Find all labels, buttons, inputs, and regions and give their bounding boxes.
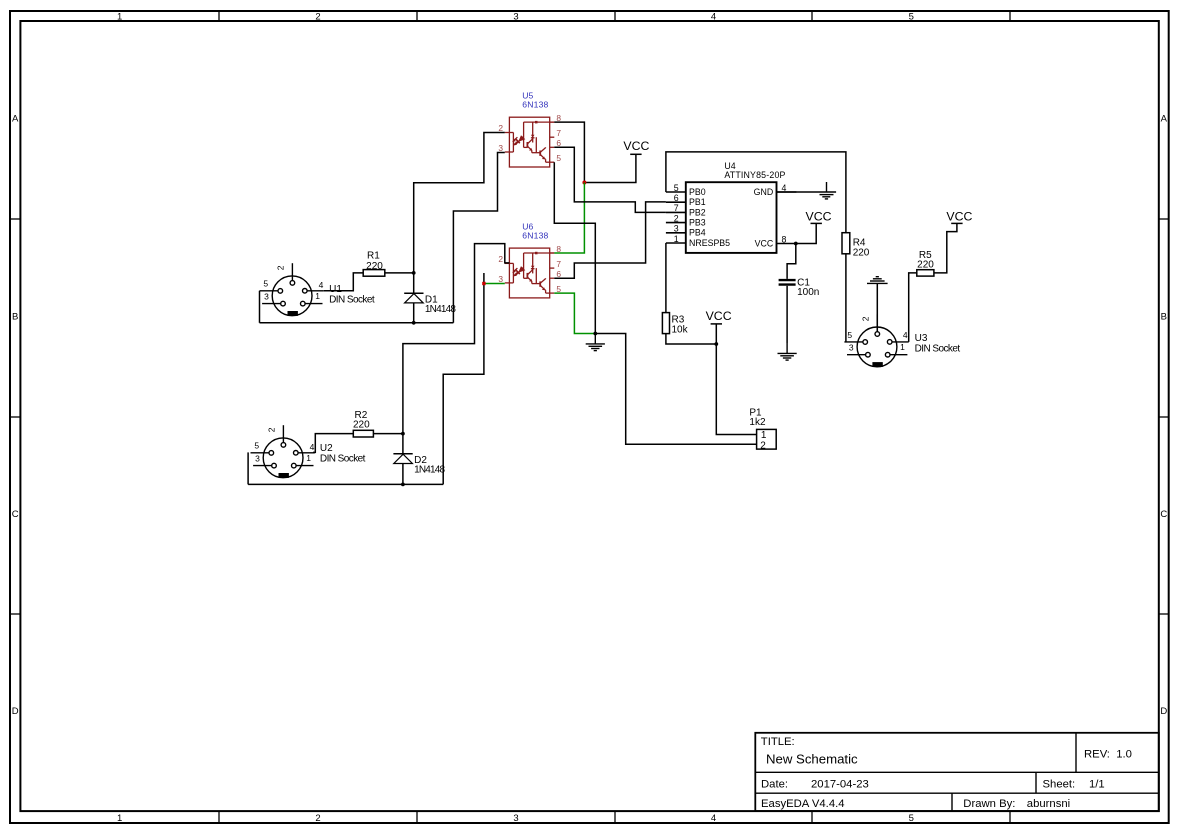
svg-text:6: 6 <box>674 193 679 203</box>
DIN socket U3 <box>844 314 960 367</box>
border row labels right <box>1160 113 1167 717</box>
diode D2 1N4148 <box>393 434 445 485</box>
border column ticks bottom <box>219 811 1010 823</box>
wire U5 pin8 to VCC junction <box>554 122 584 182</box>
wire R2 to D2 top junction <box>373 433 403 435</box>
wire U5 pin5 to ground <box>554 162 595 333</box>
svg-text:7: 7 <box>674 203 679 213</box>
wire VCC junction to P1 pin1 <box>716 344 756 435</box>
power flag VCC at U4 <box>806 209 832 223</box>
svg-text:5: 5 <box>263 279 268 289</box>
svg-text:7: 7 <box>556 128 561 138</box>
svg-text:VCC: VCC <box>623 139 649 153</box>
junction square U6 pin3 <box>482 282 485 285</box>
svg-text:ATTINY85-20P: ATTINY85-20P <box>724 170 785 180</box>
wire R3 bottom to VCC junction <box>666 334 716 344</box>
svg-text:3: 3 <box>513 813 518 824</box>
svg-text:DIN Socket: DIN Socket <box>915 344 961 355</box>
svg-text:2: 2 <box>674 213 679 223</box>
svg-text:1/1: 1/1 <box>1089 779 1105 791</box>
svg-text:2017-04-23: 2017-04-23 <box>811 779 869 791</box>
diode D1 1N4148 <box>404 273 456 323</box>
svg-text:3: 3 <box>255 453 260 463</box>
power flag VCC at R5 <box>946 209 972 223</box>
wire U2 pin4 to R2 <box>313 434 353 453</box>
border column labels top <box>117 12 914 23</box>
svg-text:4: 4 <box>711 813 716 824</box>
svg-text:6N138: 6N138 <box>522 100 548 110</box>
DIN socket U2 <box>251 425 366 478</box>
svg-text:PB2: PB2 <box>689 207 706 217</box>
wire U3 pin4 to R5 <box>909 273 917 342</box>
wire U4 GND pin to ground <box>777 191 837 193</box>
svg-text:PB1: PB1 <box>689 197 706 207</box>
wire R1 to D1 top junction <box>385 272 414 274</box>
svg-text:5: 5 <box>556 153 561 163</box>
border column labels bottom <box>117 813 914 824</box>
svg-text:Date:: Date: <box>761 779 788 791</box>
wire bottom rail to U6 pin3 node <box>443 273 484 484</box>
svg-text:New Schematic: New Schematic <box>766 751 858 766</box>
opto-coupler U5 6N138 <box>498 91 561 168</box>
svg-text:3: 3 <box>513 12 518 23</box>
svg-text:EasyEDA V4.4.4: EasyEDA V4.4.4 <box>761 798 845 810</box>
wire U3 pin2 to ground flag <box>876 283 878 331</box>
capacitor C1 100n <box>779 277 820 298</box>
opto-coupler U6 6N138 <box>498 222 561 298</box>
svg-text:A: A <box>12 113 19 124</box>
wire U2 bottom rail <box>248 483 443 485</box>
svg-text:B: B <box>12 311 18 322</box>
wire green U6 pin3 <box>484 283 505 285</box>
svg-text:Drawn By:: Drawn By: <box>963 798 1015 810</box>
wire U1 bottom rail <box>260 322 454 324</box>
wire U4 VCC pin to junction <box>796 223 816 243</box>
resistor R4 220 <box>842 233 870 259</box>
wire VCC junction to VCC symbol <box>584 154 636 182</box>
resistor R3 10k <box>662 313 688 336</box>
svg-text:4: 4 <box>319 280 324 290</box>
ground symbol center <box>586 334 605 351</box>
svg-text:220: 220 <box>353 419 370 430</box>
wire R4 bottom to U3 pin5 <box>845 254 847 342</box>
svg-text:3: 3 <box>498 143 503 153</box>
svg-text:220: 220 <box>853 248 870 259</box>
resistor R1 220 <box>363 251 385 277</box>
svg-text:6N138: 6N138 <box>522 231 548 241</box>
svg-text:D: D <box>12 706 19 717</box>
wire R5 to VCC <box>934 223 957 273</box>
svg-text:B: B <box>1161 311 1167 322</box>
svg-text:4: 4 <box>711 12 716 23</box>
DIN socket U1 <box>260 263 375 316</box>
svg-text:2: 2 <box>315 12 320 23</box>
power flag VCC near U5 <box>623 139 649 154</box>
resistor R2 220 <box>353 410 373 437</box>
svg-text:100n: 100n <box>797 287 819 298</box>
svg-text:4: 4 <box>310 442 315 452</box>
svg-text:PB4: PB4 <box>689 228 706 238</box>
svg-text:5: 5 <box>254 441 259 451</box>
border row labels left <box>12 113 19 717</box>
svg-text:2: 2 <box>760 440 766 451</box>
svg-text:1: 1 <box>117 12 122 23</box>
junction dot R2/D2 <box>401 432 405 436</box>
ground symbol at U4 GND <box>820 182 834 199</box>
title block <box>755 733 1159 811</box>
svg-text:2: 2 <box>498 123 503 133</box>
svg-text:2: 2 <box>276 265 286 270</box>
svg-text:PB0: PB0 <box>689 187 706 197</box>
svg-text:TITLE:: TITLE: <box>761 736 795 748</box>
wire C1 to ground <box>786 286 788 343</box>
svg-text:1k2: 1k2 <box>749 417 766 428</box>
svg-text:8: 8 <box>782 234 787 244</box>
junction dot D1 bottom <box>412 321 416 325</box>
wire green U6 pin5 to ground <box>554 293 595 333</box>
svg-text:VCC: VCC <box>706 309 732 323</box>
junction dot ground net <box>593 332 597 336</box>
wire junction to C1 <box>787 244 796 279</box>
wire bottom rail to U5 pin3 <box>453 153 504 323</box>
wire U6 pin6 to PB1 <box>554 202 666 278</box>
svg-text:1: 1 <box>117 813 122 824</box>
svg-text:VCC: VCC <box>946 209 972 223</box>
svg-text:10k: 10k <box>672 324 689 335</box>
wire NRESPB5 to R3 <box>665 243 667 313</box>
svg-text:GND: GND <box>754 187 774 197</box>
wire green VCC to U6 pin8 <box>554 183 584 254</box>
border column ticks top <box>219 11 1010 21</box>
svg-text:D: D <box>1160 706 1167 717</box>
svg-text:1N4148: 1N4148 <box>414 465 445 476</box>
svg-text:DIN Socket: DIN Socket <box>320 453 366 464</box>
svg-text:5: 5 <box>847 330 852 340</box>
wire U1 pin5 down <box>259 291 261 323</box>
svg-text:VCC: VCC <box>806 209 832 223</box>
border row ticks right <box>1159 219 1169 614</box>
svg-text:C: C <box>1160 509 1167 520</box>
svg-text:Sheet:: Sheet: <box>1043 779 1076 791</box>
junction dot VCC/P1 <box>714 342 718 346</box>
svg-text:NRESPB5: NRESPB5 <box>689 238 730 248</box>
IC U4 ATTINY85-20P <box>666 161 797 253</box>
svg-text:5: 5 <box>909 813 914 824</box>
junction dot D2 bottom <box>401 483 405 487</box>
svg-text:220: 220 <box>917 260 934 271</box>
svg-text:3: 3 <box>674 224 679 234</box>
svg-text:220: 220 <box>366 261 383 272</box>
svg-text:2: 2 <box>267 427 277 432</box>
svg-text:1: 1 <box>674 234 679 244</box>
resistor R5 220 <box>917 250 934 276</box>
svg-text:A: A <box>1161 113 1168 124</box>
header P1 1k2 <box>749 407 776 451</box>
svg-text:C: C <box>12 509 19 520</box>
svg-text:R1: R1 <box>367 251 380 262</box>
wire junction to U5 pin2 <box>414 133 505 273</box>
svg-text:1: 1 <box>306 453 311 463</box>
wire junction to U6 pin2 <box>403 244 510 434</box>
wire U1 pin4 to R1 <box>324 273 363 291</box>
svg-text:5: 5 <box>909 12 914 23</box>
wire U5 pin6 to PB2 <box>554 147 666 212</box>
power flag VCC at R3 <box>706 309 732 344</box>
svg-text:2: 2 <box>315 813 320 824</box>
svg-text:4: 4 <box>903 330 908 340</box>
svg-text:PB3: PB3 <box>689 218 706 228</box>
wire PB0 to R4 top <box>666 152 846 233</box>
svg-text:REV: 1.0: REV: 1.0 <box>1084 748 1132 760</box>
ground symbol above U3 (flipped) <box>867 277 888 284</box>
junction dot VCC net <box>582 181 586 185</box>
svg-text:1N4148: 1N4148 <box>425 304 456 315</box>
svg-text:1: 1 <box>900 342 905 352</box>
wire U2 pin5 down <box>247 452 249 484</box>
svg-text:3: 3 <box>498 274 503 284</box>
svg-text:3: 3 <box>849 342 854 352</box>
wire ground to P1 pin2 <box>595 334 756 445</box>
border row ticks left <box>10 219 20 614</box>
svg-text:DIN Socket: DIN Socket <box>329 294 375 305</box>
junction dot U4 VCC <box>794 242 798 246</box>
svg-text:1: 1 <box>315 291 320 301</box>
ground symbol below C1 <box>778 343 797 360</box>
junction dot R1/D1 <box>412 271 416 275</box>
svg-text:aburnsni: aburnsni <box>1027 798 1070 810</box>
svg-text:3: 3 <box>264 291 269 301</box>
svg-text:2: 2 <box>498 254 503 264</box>
svg-text:7: 7 <box>556 259 561 269</box>
svg-text:5: 5 <box>674 183 679 193</box>
svg-text:VCC: VCC <box>755 238 774 248</box>
svg-text:2: 2 <box>861 316 871 321</box>
